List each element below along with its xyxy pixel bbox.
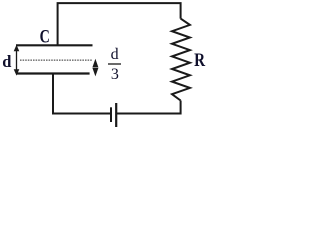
svg-text:R: R [194,50,205,71]
svg-text:d: d [111,46,119,63]
svg-text:3: 3 [111,66,119,83]
svg-text:d: d [2,52,11,71]
svg-text:C: C [40,26,50,47]
